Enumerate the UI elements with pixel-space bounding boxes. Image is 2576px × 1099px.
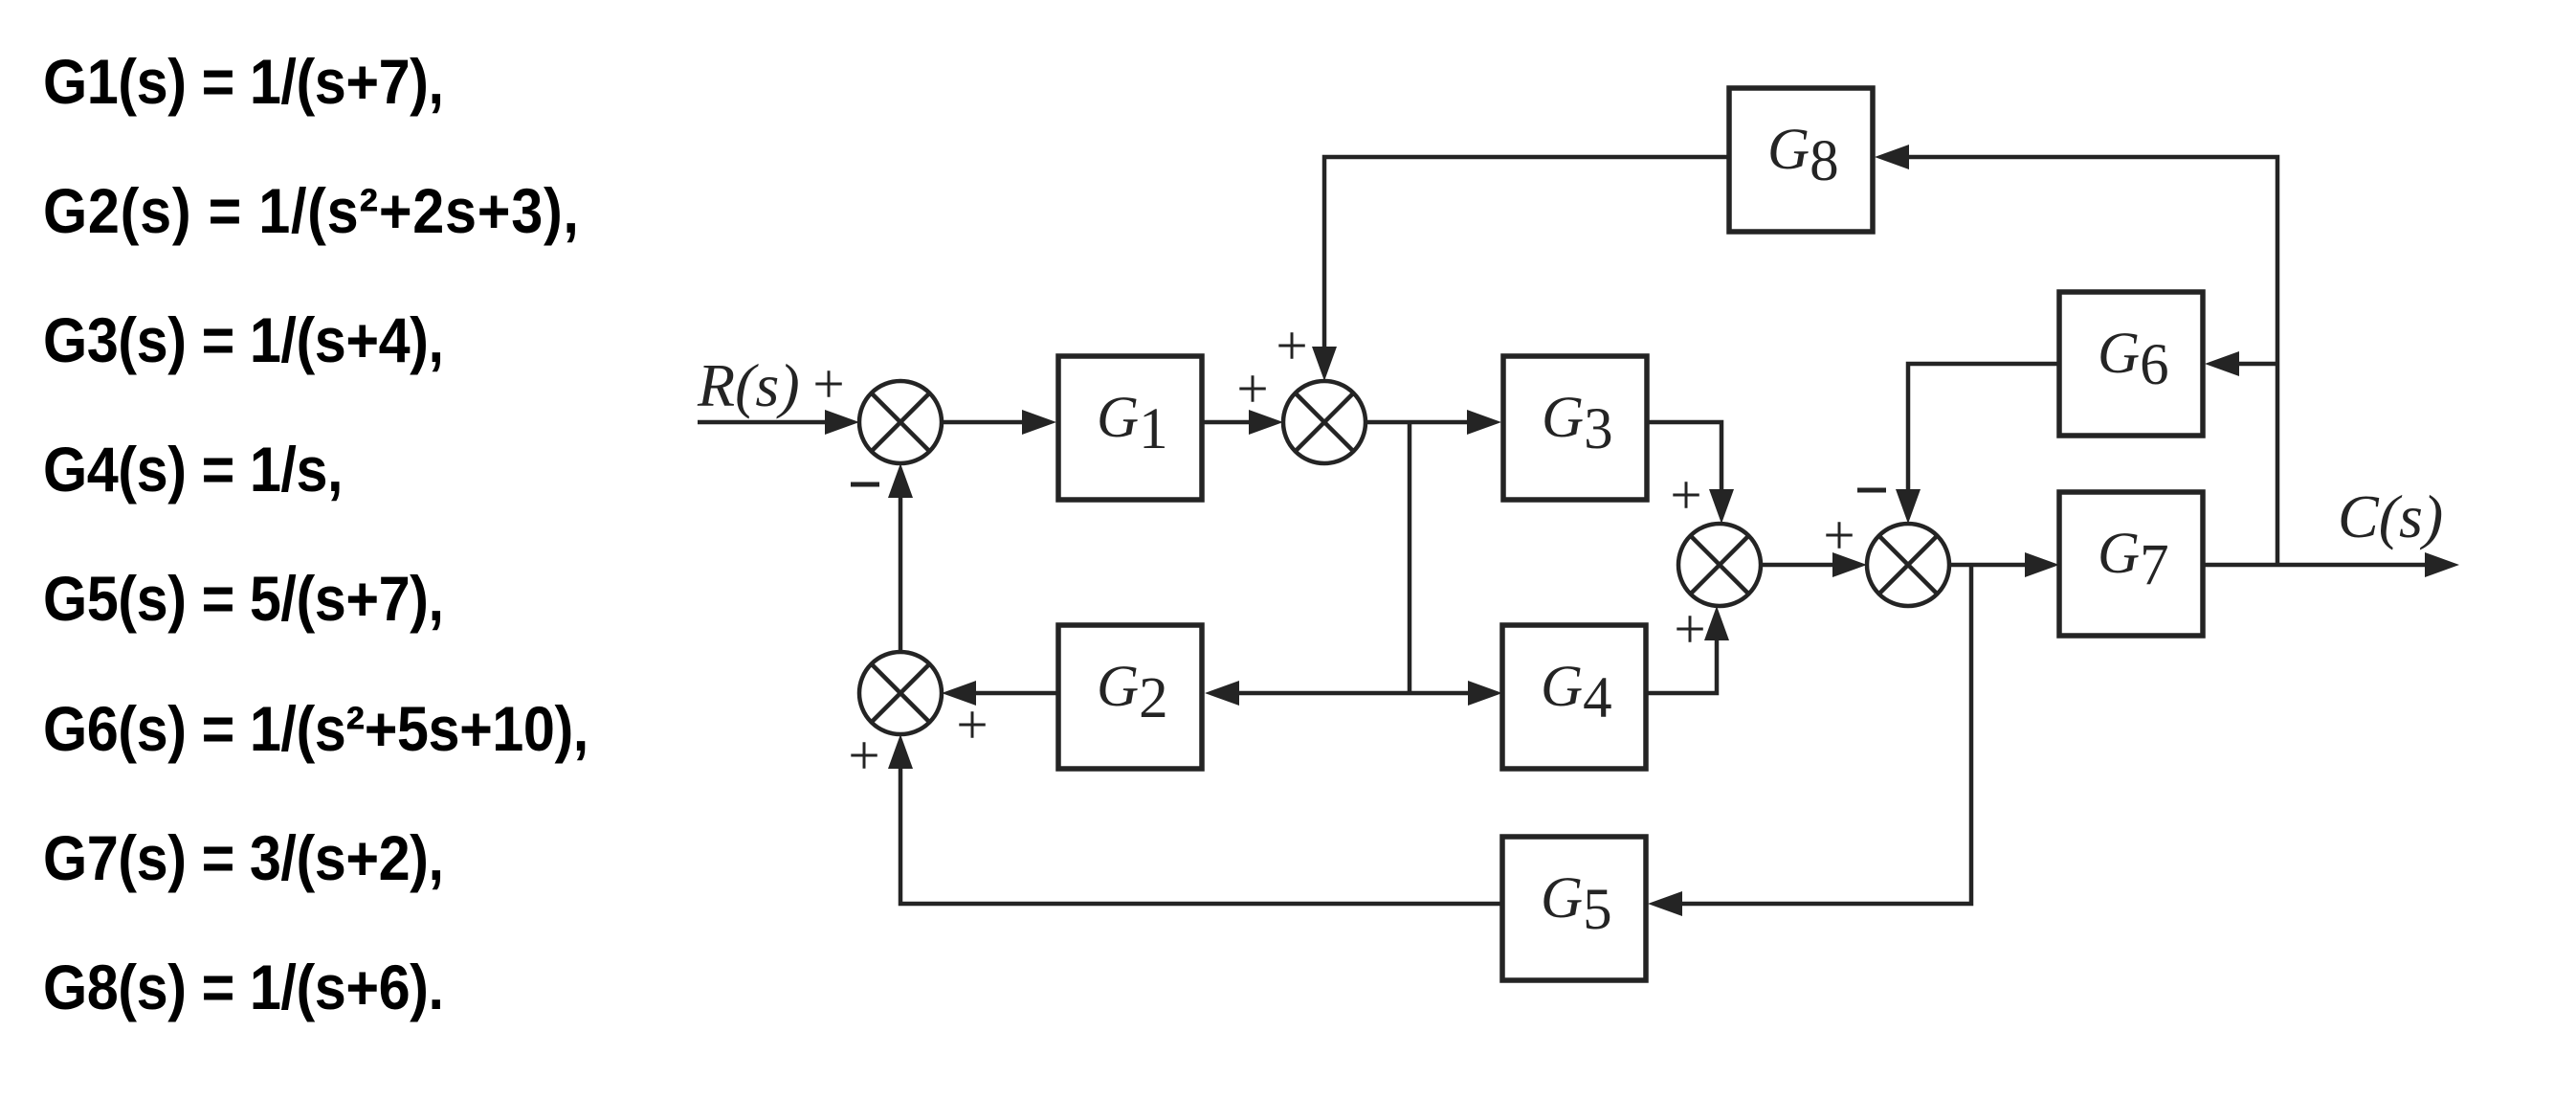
svg-text:G6(s) = 1/(s²+5s+10),: G6(s) = 1/(s²+5s+10), — [43, 694, 588, 765]
block G1 — [1058, 356, 1202, 500]
wire S4 to G7 — [1949, 563, 2031, 568]
wire node to G4 — [1410, 691, 1476, 696]
wire S3 to S4 — [1761, 563, 1839, 568]
block G6 — [2059, 292, 2203, 436]
wire input R(s) to S1 — [698, 420, 837, 425]
svg-text:R(s): R(s) — [697, 351, 800, 419]
svg-text:G7(s) = 3/(s+2),: G7(s) = 3/(s+2), — [43, 823, 444, 894]
wire S2 to G3 — [1367, 420, 1474, 425]
wire G4 up to S3 — [1646, 634, 1717, 693]
wire G5 to S5 (bottom feedback) — [900, 762, 1502, 904]
svg-text:+: + — [812, 352, 844, 415]
svg-text:G5(s) = 5/(s+7),: G5(s) = 5/(s+7), — [43, 564, 444, 635]
svg-text:+: + — [848, 724, 879, 787]
wire S5 up to S1 — [899, 490, 903, 652]
svg-text:+: + — [1823, 504, 1854, 567]
svg-text:+: + — [1674, 597, 1705, 661]
wire G8 to S2 (feedback down) — [1324, 157, 1729, 354]
svg-text:+: + — [956, 693, 988, 756]
svg-text:G3(s) = 1/(s+4),: G3(s) = 1/(s+4), — [43, 305, 444, 376]
wire S4 output down to G5 — [1677, 565, 1971, 904]
wire G7 to output C(s) — [2203, 563, 2425, 568]
wire branch down from S2 output node — [1408, 422, 1412, 693]
wire G3 to S3 — [1647, 422, 1721, 496]
block G7 — [2059, 492, 2203, 636]
wire node to G2 — [1234, 691, 1410, 696]
summing junction S4 — [1867, 524, 1949, 606]
svg-text:+: + — [1276, 314, 1307, 377]
summing junction S1 — [859, 381, 942, 463]
svg-text:G1(s) = 1/(s+7),: G1(s) = 1/(s+7), — [43, 47, 444, 118]
wire output up to G8 — [1904, 157, 2277, 565]
svg-text:G4(s) = 1/s,: G4(s) = 1/s, — [43, 435, 343, 505]
wire G2 to S5 — [971, 691, 1058, 696]
svg-text:G8(s) = 1/(s+6).: G8(s) = 1/(s+6). — [43, 953, 444, 1023]
sign minus at S4 top input — [1857, 488, 1886, 493]
wire G6 to S4 — [1908, 364, 2059, 496]
svg-text:+: + — [1236, 357, 1268, 420]
summing junction S2 — [1283, 381, 1366, 463]
wire G1 to S2 — [1202, 420, 1258, 425]
svg-text:G2(s) = 1/(s²+2s+3),: G2(s) = 1/(s²+2s+3), — [43, 176, 580, 247]
block G4 — [1502, 625, 1646, 769]
block G2 — [1058, 625, 1202, 769]
wire S1 to G1 — [944, 420, 1029, 425]
svg-text:C(s): C(s) — [2338, 482, 2443, 550]
block G8 — [1729, 88, 1873, 232]
sign minus at S1 lower input — [851, 482, 879, 487]
summing junction S5 — [859, 652, 942, 734]
svg-text:+: + — [1670, 463, 1701, 527]
block G5 — [1502, 837, 1646, 980]
summing junction S3 — [1678, 524, 1761, 606]
wire branch to G6 — [2234, 362, 2277, 367]
block G3 — [1503, 356, 1647, 500]
